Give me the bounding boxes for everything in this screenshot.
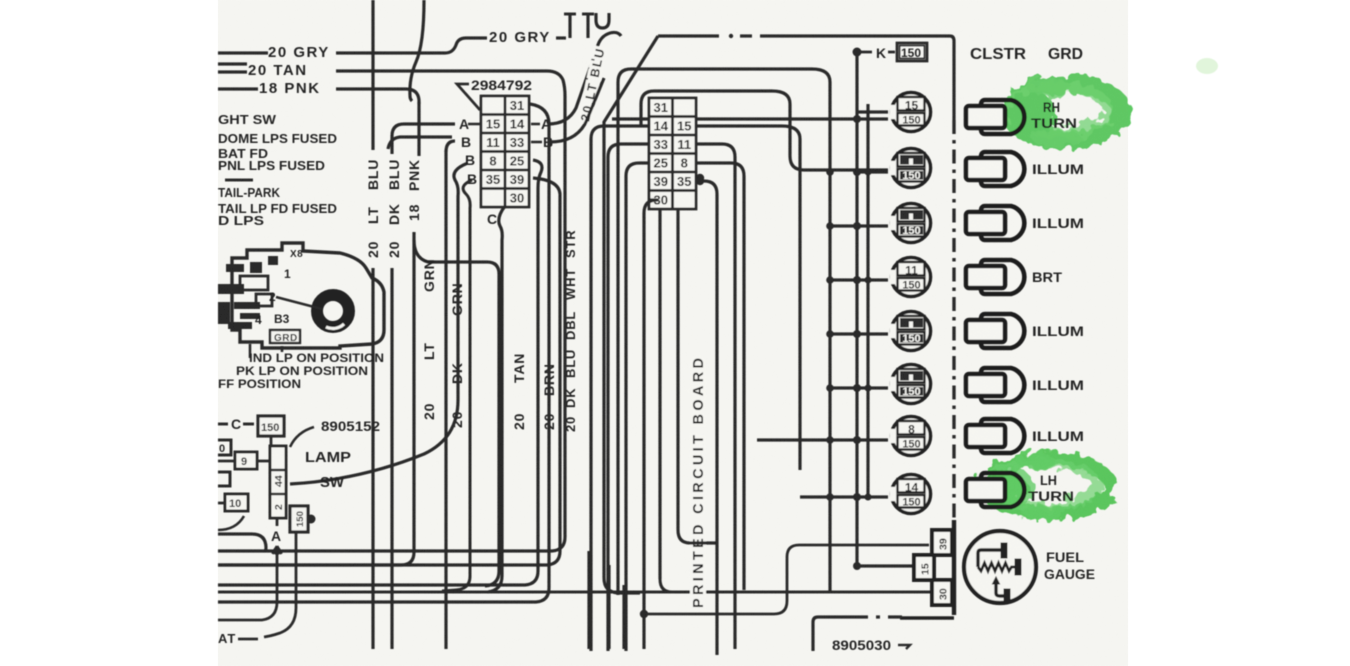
svg-text:8905030: 8905030 bbox=[832, 638, 891, 653]
box 9 bbox=[235, 452, 257, 469]
scan smudge bbox=[1196, 58, 1218, 74]
bus to fuel box 15 bbox=[857, 564, 914, 567]
svg-text:39: 39 bbox=[654, 174, 668, 189]
svg-text:FF POSITION: FF POSITION bbox=[218, 377, 301, 391]
svg-text:25: 25 bbox=[510, 153, 524, 168]
pcb edge solid near fuel bbox=[952, 520, 956, 615]
wire to bulb 4 bbox=[830, 278, 888, 281]
svg-text:11: 11 bbox=[905, 264, 918, 278]
svg-text:11: 11 bbox=[486, 135, 500, 150]
wire 18 PNK corner bbox=[336, 89, 419, 104]
wire stub above 20 TAN bbox=[218, 62, 247, 65]
highlighter LH TURN bbox=[971, 453, 1110, 520]
lamp socket ILLUM bbox=[966, 152, 1024, 186]
svg-text:35: 35 bbox=[677, 174, 691, 189]
switch knob grommet bbox=[317, 295, 349, 327]
bottom line under boxes bbox=[900, 616, 954, 620]
fuel connector box 30 bbox=[932, 580, 952, 605]
wire bus to bulb 1 bbox=[857, 110, 888, 113]
svg-text:150: 150 bbox=[901, 46, 921, 60]
partial box at edge bbox=[218, 472, 230, 486]
wire pin 35 drop 20 DK GRN bbox=[442, 180, 472, 591]
fuse box 150 bbox=[258, 416, 284, 436]
wire to bulb 5 bbox=[830, 332, 888, 335]
lamp socket ILLUM bbox=[966, 314, 1024, 348]
junction branch bbox=[826, 276, 834, 284]
bump on box bbox=[307, 515, 316, 524]
wire 20 LT BLU to top bbox=[548, 32, 621, 124]
wire jog at y262 to drop v499 bbox=[414, 240, 499, 586]
svg-text:ILLUM: ILLUM bbox=[1032, 324, 1084, 339]
svg-text:8: 8 bbox=[908, 423, 915, 437]
wire pin 33 left drop bbox=[608, 144, 649, 651]
wire 20 TAN to STR drop bbox=[336, 71, 565, 96]
svg-text:2984792: 2984792 bbox=[471, 78, 532, 93]
connector 2984792 leader line bbox=[457, 84, 480, 110]
svg-text:35: 35 bbox=[486, 172, 500, 187]
svg-text:FUEL: FUEL bbox=[1046, 550, 1084, 565]
svg-text:14: 14 bbox=[510, 116, 525, 131]
svg-text:33: 33 bbox=[510, 135, 524, 150]
wire B row stub left bbox=[388, 137, 452, 149]
junction secondary bus bbox=[865, 169, 872, 176]
wire to bulb 7 bbox=[757, 438, 888, 441]
junction secondary bus bbox=[865, 277, 872, 284]
svg-text:IND LP ON POSITION: IND LP ON POSITION bbox=[249, 351, 384, 365]
wire pin A drop bbox=[218, 559, 277, 620]
svg-text:15: 15 bbox=[486, 116, 500, 131]
pcb bottom edge bbox=[218, 591, 952, 594]
wire pin B right up bbox=[550, 78, 604, 142]
junction secondary bus bbox=[865, 494, 872, 501]
junction secondary bus bbox=[865, 385, 872, 392]
svg-text:8905152: 8905152 bbox=[321, 419, 380, 434]
svg-text:X8: X8 bbox=[290, 249, 303, 260]
svg-text:BLU: BLU bbox=[365, 159, 381, 190]
wire H119 to bulb 1 bbox=[696, 117, 888, 120]
svg-text:GRN: GRN bbox=[421, 258, 437, 292]
wire 20 LT BLU vertical lower bbox=[371, 268, 374, 649]
junction branch bbox=[826, 493, 834, 501]
junction branch bbox=[826, 168, 834, 176]
K-150 tag bbox=[861, 51, 872, 54]
fuel gauge circle bbox=[964, 531, 1036, 603]
indicator bulb 15 bbox=[890, 93, 931, 132]
svg-text:30: 30 bbox=[510, 190, 524, 205]
wire 20 LT BLU vertical upper bbox=[371, 0, 374, 150]
svg-text:8: 8 bbox=[489, 153, 496, 168]
junction at connector C2 pin 35 bbox=[696, 174, 704, 182]
svg-text:20: 20 bbox=[386, 241, 402, 258]
pin B right dash bbox=[531, 141, 542, 144]
arrow after 8905030 bbox=[898, 645, 910, 649]
svg-text:TURN: TURN bbox=[1031, 116, 1077, 131]
partial box at edge bbox=[218, 440, 231, 455]
svg-text:150: 150 bbox=[902, 115, 920, 127]
junction branch bbox=[826, 384, 834, 392]
wire hook crossbar bbox=[564, 13, 576, 16]
indicator bulb 8 bbox=[890, 204, 931, 243]
wire H614 to riser feeding box 39 bbox=[644, 545, 929, 614]
switch internal contacts bbox=[218, 256, 278, 329]
wire 18 PNK vertical upper bbox=[417, 102, 420, 156]
wire below connector v660 bbox=[658, 209, 661, 579]
svg-text:PRINTED CIRCUIT BOARD: PRINTED CIRCUIT BOARD bbox=[691, 358, 707, 608]
svg-text:150: 150 bbox=[902, 170, 920, 182]
wire 20 DK BLU from pin A bbox=[392, 124, 455, 154]
svg-text:4: 4 bbox=[255, 313, 262, 327]
svg-text:8: 8 bbox=[681, 155, 688, 170]
lamp socket ILLUM bbox=[966, 419, 1024, 453]
position tick bbox=[249, 344, 252, 358]
svg-text:1: 1 bbox=[284, 267, 291, 281]
wire 20 BRN vertical to rail 565 bbox=[218, 178, 560, 565]
svg-text:20: 20 bbox=[365, 241, 381, 258]
wire 20 LT GRN vertical bbox=[444, 150, 447, 649]
highlighter RH TURN bbox=[1008, 78, 1122, 147]
svg-text:GHT SW: GHT SW bbox=[218, 112, 277, 127]
wire hook crossbar bbox=[582, 13, 594, 16]
wire 20 GRY to upper label bbox=[336, 38, 487, 53]
curve below box 10 bbox=[218, 516, 244, 530]
wire 20 DK BLU DBL WHT STR vertical bbox=[218, 96, 565, 551]
pin A left dash bbox=[468, 123, 481, 126]
svg-text:LH: LH bbox=[1040, 473, 1057, 488]
svg-text:14: 14 bbox=[905, 481, 919, 495]
wire v660 corner to pcb bottom bbox=[660, 579, 672, 592]
wire rail 534 hairpin bbox=[218, 534, 266, 551]
wire 20 DK BLU vertical lower bbox=[390, 268, 393, 649]
box 10 bbox=[225, 494, 248, 511]
svg-text:SW: SW bbox=[320, 474, 345, 491]
wire drop v589 bbox=[587, 551, 590, 649]
wire drop at top edge bbox=[586, 14, 589, 38]
wire pin 15 right run bbox=[696, 126, 800, 470]
svg-text:18 PNK: 18 PNK bbox=[259, 80, 321, 97]
junction bus bbox=[853, 222, 861, 230]
svg-text:33: 33 bbox=[654, 137, 668, 152]
junction bus bbox=[853, 115, 861, 123]
svg-text:PNL LPS FUSED: PNL LPS FUSED bbox=[218, 158, 325, 173]
wire pin 30 left drop bbox=[644, 200, 657, 649]
svg-text:LAMP: LAMP bbox=[305, 449, 351, 466]
wire 20 TAN from left edge bbox=[218, 70, 247, 73]
wire secondary bus bbox=[866, 104, 869, 497]
svg-text:15: 15 bbox=[920, 563, 932, 575]
svg-text:LT: LT bbox=[421, 342, 437, 360]
paper grain overlay bbox=[218, 0, 1128, 666]
connector C2 pcb grid bbox=[649, 98, 696, 209]
wire 20 DK GRN swoop bbox=[290, 163, 468, 484]
wire from top edge S-curve bbox=[410, 0, 424, 101]
svg-text:31: 31 bbox=[654, 100, 668, 115]
junction branch bbox=[826, 436, 834, 444]
svg-text:TURN: TURN bbox=[1028, 489, 1074, 504]
wire into box 10 bbox=[218, 502, 225, 505]
svg-text:150: 150 bbox=[902, 280, 920, 292]
pcb right edge dash-dot bbox=[952, 120, 955, 615]
svg-text:ILLUM: ILLUM bbox=[1032, 378, 1084, 393]
svg-text:D LPS: D LPS bbox=[218, 213, 264, 228]
fuel connector box 15 bbox=[914, 555, 934, 580]
svg-text:AT: AT bbox=[218, 631, 236, 646]
wire 18 PNK from left edge bbox=[218, 87, 258, 90]
printed circuit board outline top bbox=[604, 36, 658, 593]
wire to pin C of lamp switch bbox=[218, 423, 228, 426]
junction bus bbox=[853, 436, 861, 444]
wire pin 35 right run bbox=[700, 181, 717, 655]
junction bus bbox=[853, 330, 861, 338]
svg-text:15: 15 bbox=[905, 99, 919, 113]
svg-text:2: 2 bbox=[269, 290, 276, 304]
lamp switch connector strip bbox=[270, 446, 286, 518]
lamp socket ILLUM bbox=[966, 368, 1024, 402]
svg-text:A: A bbox=[459, 116, 469, 132]
junction bus bbox=[853, 493, 861, 501]
svg-text:K: K bbox=[876, 45, 886, 61]
svg-text:150: 150 bbox=[902, 225, 920, 237]
svg-text:CLSTR: CLSTR bbox=[970, 46, 1026, 63]
svg-text:DK: DK bbox=[386, 203, 402, 225]
svg-text:150: 150 bbox=[902, 497, 920, 509]
svg-text:B: B bbox=[467, 171, 477, 187]
svg-text:39: 39 bbox=[510, 172, 524, 187]
svg-text:DOME LPS FUSED: DOME LPS FUSED bbox=[218, 131, 337, 146]
svg-text:PK LP ON POSITION: PK LP ON POSITION bbox=[236, 364, 368, 378]
svg-text:C: C bbox=[487, 211, 497, 227]
svg-text:ILLUM: ILLUM bbox=[1032, 429, 1084, 444]
wire loop inner to bulb 2 bbox=[641, 91, 888, 170]
junction K bbox=[853, 48, 862, 57]
indicator bulb 8 bbox=[890, 312, 931, 351]
junction branch bbox=[826, 222, 834, 230]
junction bus bbox=[853, 168, 861, 176]
indicator bulb 14 bbox=[890, 475, 931, 514]
wire pin 31 drop to rail 602 bbox=[218, 104, 549, 602]
junction bus bbox=[853, 384, 861, 392]
wire into box 9 bbox=[218, 460, 235, 463]
wire loop outer to pcb bottom bbox=[618, 69, 830, 595]
wire drop at top edge bbox=[568, 14, 571, 38]
switch contact outline boxes bbox=[240, 276, 272, 306]
svg-text:150: 150 bbox=[902, 333, 920, 345]
svg-text:150: 150 bbox=[902, 386, 920, 398]
cluster outline 8905030 bbox=[813, 617, 868, 651]
indicator bulb 8 bbox=[890, 365, 931, 404]
svg-text:44: 44 bbox=[273, 475, 285, 487]
lamp socket ILLUM bbox=[966, 206, 1024, 240]
svg-text:20 GRY: 20 GRY bbox=[268, 44, 330, 61]
svg-text:GAUGE: GAUGE bbox=[1044, 567, 1095, 582]
junction bus bbox=[853, 276, 861, 284]
junction pin 35 bbox=[696, 177, 704, 185]
svg-text:GRD: GRD bbox=[1048, 46, 1083, 63]
svg-text:14: 14 bbox=[654, 118, 669, 133]
wire pin 11 right run bbox=[696, 144, 735, 649]
wire bus to bulb 2b bbox=[857, 170, 888, 173]
svg-text:30: 30 bbox=[938, 588, 950, 600]
svg-text:LT: LT bbox=[365, 206, 381, 224]
svg-text:31: 31 bbox=[510, 98, 524, 113]
junction at bottom rail bbox=[273, 547, 281, 555]
link from 150 box to strip bbox=[270, 436, 273, 446]
svg-text:0: 0 bbox=[219, 443, 225, 455]
wire drop v624 bbox=[622, 585, 625, 649]
wire 20 GRY from left edge bbox=[218, 51, 268, 54]
wire to bulb 8 bbox=[800, 495, 888, 498]
wire pin 25 left drop bbox=[626, 163, 649, 651]
svg-text:B: B bbox=[465, 152, 475, 168]
arrow up to A bbox=[273, 546, 282, 559]
wire stub after 20 GRY bbox=[556, 36, 566, 39]
svg-text:PNK: PNK bbox=[406, 159, 422, 191]
svg-text:10: 10 bbox=[229, 498, 241, 510]
wire from 150 box drop bbox=[264, 532, 296, 637]
svg-text:20: 20 bbox=[421, 403, 437, 420]
svg-text:11: 11 bbox=[677, 137, 691, 152]
svg-text:20 TAN: 20 TAN bbox=[248, 62, 308, 79]
svg-text:ILLUM: ILLUM bbox=[1032, 162, 1084, 177]
GRD box bbox=[270, 330, 300, 343]
wire cluster ground bus bbox=[855, 52, 858, 566]
dash after C bbox=[243, 423, 254, 426]
wire pin 14 left drop bbox=[591, 126, 649, 651]
dash after AT bbox=[238, 638, 258, 641]
small box 150 lower bbox=[290, 506, 308, 532]
headlight switch body outline bbox=[232, 243, 384, 348]
pcb top dash dot bbox=[729, 34, 733, 38]
wire below connector v678 jog bbox=[678, 209, 717, 543]
svg-text:150: 150 bbox=[261, 422, 279, 434]
svg-text:18: 18 bbox=[406, 204, 422, 221]
svg-text:B3: B3 bbox=[274, 312, 290, 326]
svg-text:15: 15 bbox=[677, 118, 691, 133]
wire pin 8 right run bbox=[696, 163, 744, 590]
svg-text:BRT: BRT bbox=[1032, 270, 1063, 285]
svg-text:20: 20 bbox=[511, 413, 527, 430]
svg-text:RH: RH bbox=[1043, 100, 1060, 115]
connector C1 2984792 grid bbox=[481, 96, 529, 207]
svg-text:B: B bbox=[461, 134, 471, 150]
svg-text:25: 25 bbox=[654, 155, 668, 170]
wire pin C drop bbox=[488, 206, 505, 592]
junction branch bbox=[826, 330, 834, 338]
wire to bulb 6 bbox=[830, 386, 888, 389]
svg-text:TAN: TAN bbox=[511, 353, 527, 383]
svg-text:9: 9 bbox=[241, 456, 247, 468]
svg-text:GRD: GRD bbox=[274, 333, 298, 344]
wire to bulb 3 bbox=[830, 224, 888, 227]
fuel gauge internals bbox=[978, 543, 1021, 603]
svg-text:C: C bbox=[231, 416, 241, 432]
svg-text:TAIL-PARK: TAIL-PARK bbox=[218, 185, 281, 200]
svg-text:2: 2 bbox=[273, 504, 285, 510]
separator dash bbox=[225, 179, 253, 182]
scanned page area bbox=[218, 0, 1128, 666]
svg-text:150: 150 bbox=[295, 511, 306, 527]
junction H614 bbox=[640, 610, 648, 618]
pin A right dash bbox=[531, 123, 540, 126]
wire pin B hook bbox=[446, 141, 455, 152]
fuel connector box 39 bbox=[932, 530, 952, 555]
wire u-turn at top edge bbox=[596, 13, 609, 28]
svg-text:A: A bbox=[271, 528, 281, 544]
wire H119 left segment bbox=[612, 117, 649, 120]
indicator bulb 8 bbox=[890, 417, 931, 456]
lamp socket LH TURN bbox=[966, 473, 1024, 507]
indicator bulb 11 bbox=[890, 258, 931, 297]
indicator bulb 8 bbox=[890, 149, 931, 188]
junction bus bbox=[853, 562, 861, 570]
svg-text:150: 150 bbox=[902, 439, 920, 451]
svg-text:39: 39 bbox=[938, 538, 950, 550]
wire strip to A bbox=[276, 518, 279, 526]
wire 20 TAN vertical to rail 585 bbox=[218, 160, 542, 585]
svg-text:20 GRY: 20 GRY bbox=[489, 29, 551, 46]
lamp socket BRT bbox=[966, 260, 1024, 294]
wire drop v609 bbox=[607, 565, 610, 649]
lamp socket RH TURN bbox=[966, 100, 1024, 134]
svg-text:ILLUM: ILLUM bbox=[1032, 216, 1084, 231]
wire 18 PNK vertical to bottom rail bbox=[218, 232, 414, 565]
svg-text:BLU: BLU bbox=[386, 159, 402, 190]
part leader 8905152 bbox=[290, 427, 314, 447]
knob pointer line bbox=[276, 297, 322, 309]
